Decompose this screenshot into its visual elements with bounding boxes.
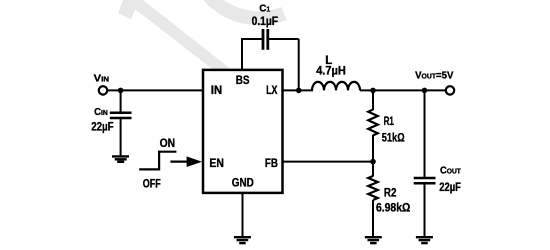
svg-text:IN: IN: [211, 83, 223, 97]
wire C1 right: [268, 38, 299, 40]
wire COUT bottom: [424, 183, 426, 237]
node junction COUT: [422, 88, 428, 94]
svg-text:LX: LX: [266, 83, 277, 97]
svg-text:BS: BS: [236, 73, 250, 87]
svg-text:6.98kΩ: 6.98kΩ: [376, 203, 410, 215]
wire BS up: [241, 39, 243, 70]
svg-text:GND: GND: [232, 175, 254, 189]
wire FB: [283, 161, 374, 163]
node junction FB: [370, 159, 376, 165]
wire LX out: [283, 89, 314, 91]
resistor R1: [368, 110, 378, 136]
svg-text:CIN: CIN: [94, 106, 108, 118]
wire C1 down to LX node: [298, 39, 300, 90]
svg-text:0.1µF: 0.1µF: [252, 16, 279, 28]
wire L to VOUT: [360, 89, 446, 91]
wire C1 left: [241, 38, 263, 40]
watermark arc stroke: [209, 0, 284, 18]
wire R2 bottom: [372, 200, 374, 237]
ground GND pin: [234, 237, 251, 243]
wire R1 top: [372, 90, 374, 110]
svg-text:R2: R2: [384, 186, 397, 200]
node junction VIN/CIN: [118, 88, 124, 94]
svg-text:FB: FB: [265, 156, 278, 170]
EN step waveform: [139, 152, 176, 170]
svg-text:C1: C1: [259, 2, 270, 14]
terminal VOUT: [446, 86, 454, 94]
svg-text:4.7µH: 4.7µH: [316, 66, 346, 78]
capacitor CIN: [110, 113, 132, 118]
node junction LX: [296, 88, 302, 94]
svg-text:OFF: OFF: [143, 176, 161, 190]
resistor R2: [368, 176, 378, 200]
svg-text:22µF: 22µF: [439, 182, 461, 194]
wire VIN to IN pin: [107, 89, 204, 91]
wire CIN bottom: [120, 118, 122, 157]
ground CIN: [112, 156, 129, 161]
ground COUT: [416, 237, 433, 243]
capacitor C1: [263, 29, 268, 50]
svg-text:EN: EN: [209, 156, 224, 170]
wire R1 bottom to FB node: [372, 135, 374, 177]
capacitor COUT: [414, 178, 436, 183]
svg-text:VIN: VIN: [94, 73, 110, 85]
svg-text:51kΩ: 51kΩ: [382, 132, 405, 144]
svg-text:COUT: COUT: [440, 165, 461, 177]
svg-text:ON: ON: [160, 136, 176, 150]
svg-text:22µF: 22µF: [91, 122, 113, 134]
watermark caret stroke: [118, 0, 232, 77]
wire COUT top: [424, 90, 426, 178]
wire GND pin down: [242, 193, 244, 237]
svg-text:VOUT=5V: VOUT=5V: [415, 69, 453, 81]
node junction R1: [370, 88, 376, 94]
ground R2: [365, 237, 382, 243]
inductor L: [312, 82, 360, 91]
svg-text:R1: R1: [384, 114, 395, 128]
op-amp U1 regulator box: [203, 70, 283, 193]
arrowhead EN: [187, 156, 202, 167]
wire EN arrow line: [170, 161, 190, 163]
wire CIN top: [120, 90, 122, 112]
terminal VIN: [99, 86, 107, 94]
